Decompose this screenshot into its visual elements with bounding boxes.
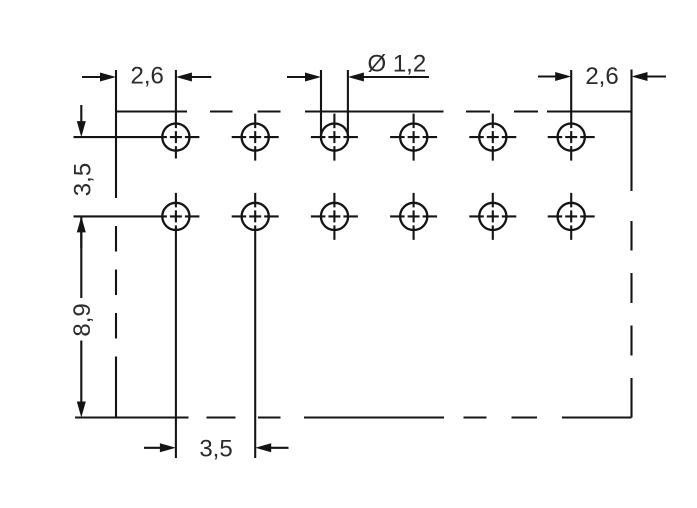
- svg-text:2,6: 2,6: [585, 63, 618, 90]
- hole A6 row1 col6: [548, 70, 595, 161]
- dashed outline bottom edge: [75, 416, 632, 418]
- hole A2 row1 col2: [232, 114, 279, 161]
- hole B1 row2 col1: [74, 193, 200, 458]
- svg-text:3,5: 3,5: [199, 435, 232, 462]
- dimension 2,6 top-right: [538, 72, 666, 81]
- svg-text:8,9: 8,9: [69, 303, 96, 336]
- hole A1 row1 col1: [74, 70, 200, 159]
- hole A5 row1 col5: [469, 114, 516, 161]
- dashed outline right edge: [630, 70, 632, 418]
- hole B5 row2 col5: [469, 193, 516, 240]
- hole B4 row2 col4: [390, 193, 437, 240]
- dimension 8,9 left: [77, 231, 86, 418]
- hole A3 row1 col3: [311, 114, 358, 161]
- hole A4 row1 col4: [390, 114, 437, 161]
- dashed outline left edge: [115, 70, 117, 419]
- hole B2 row2 col2: [232, 193, 279, 458]
- svg-text:3,5: 3,5: [70, 163, 97, 196]
- dimension diameter 1,2: [287, 70, 429, 135]
- svg-text:Ø 1,2: Ø 1,2: [368, 51, 427, 78]
- dimension 3,5 left: [77, 105, 86, 248]
- dimension 3,5 bottom: [144, 443, 289, 452]
- svg-text:2,6: 2,6: [131, 63, 164, 90]
- hole B3 row2 col3: [311, 193, 358, 240]
- dimension 2,6 top-left: [82, 73, 211, 82]
- dashed outline top edge: [116, 110, 632, 112]
- hole B6 row2 col6: [548, 193, 595, 240]
